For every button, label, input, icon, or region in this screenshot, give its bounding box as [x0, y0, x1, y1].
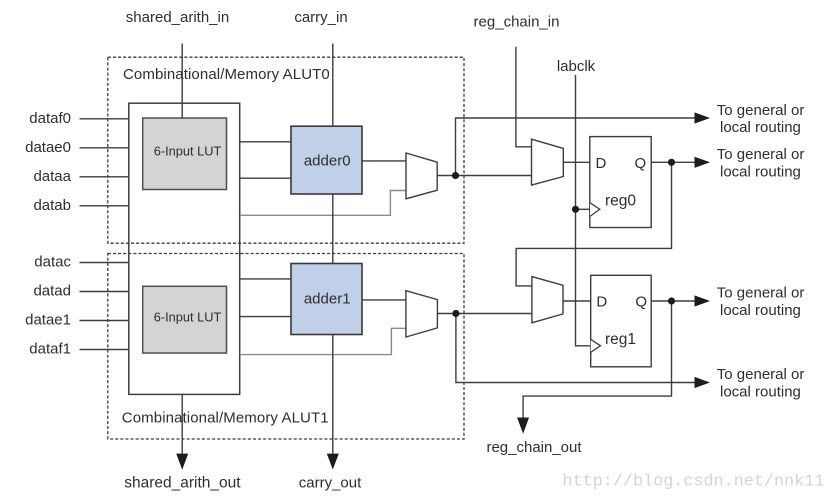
svg-text:6-Input LUT: 6-Input LUT	[154, 144, 222, 159]
svg-text:datab: datab	[33, 197, 71, 214]
svg-text:To general or: To general or	[717, 285, 805, 302]
svg-text:To general or: To general or	[717, 366, 805, 383]
svg-text:dataf0: dataf0	[29, 110, 71, 127]
svg-text:labclk: labclk	[557, 58, 596, 75]
svg-text:To general or: To general or	[717, 146, 805, 163]
svg-text:Combinational/Memory ALUT0: Combinational/Memory ALUT0	[123, 66, 330, 83]
svg-text:adder1: adder1	[304, 291, 351, 308]
svg-text:dataf1: dataf1	[29, 341, 71, 358]
svg-text:D: D	[596, 155, 607, 172]
svg-text:reg_chain_out: reg_chain_out	[486, 439, 582, 456]
svg-text:datae1: datae1	[25, 312, 71, 329]
svg-text:datae0: datae0	[25, 139, 71, 156]
svg-text:carry_in: carry_in	[294, 9, 347, 26]
svg-text:Q: Q	[635, 155, 647, 172]
svg-text:reg1: reg1	[605, 331, 636, 348]
svg-text:dataa: dataa	[33, 168, 71, 185]
svg-text:reg0: reg0	[605, 193, 636, 210]
svg-text:local routing: local routing	[720, 119, 801, 136]
svg-text:datad: datad	[33, 283, 71, 300]
svg-text:6-Input LUT: 6-Input LUT	[154, 309, 222, 324]
svg-text:local routing: local routing	[720, 163, 801, 180]
svg-text:reg_chain_in: reg_chain_in	[474, 14, 560, 31]
svg-text:shared_arith_in: shared_arith_in	[126, 9, 229, 26]
svg-text:D: D	[596, 294, 607, 311]
svg-text:local routing: local routing	[720, 302, 801, 319]
svg-text:shared_arith_out: shared_arith_out	[124, 475, 241, 492]
svg-text:To general or: To general or	[717, 102, 805, 119]
svg-text:local routing: local routing	[720, 384, 801, 401]
svg-text:adder0: adder0	[304, 153, 351, 170]
svg-text:datac: datac	[34, 254, 71, 271]
svg-text:http://blog.csdn.net/nnk11: http://blog.csdn.net/nnk11	[563, 473, 825, 492]
svg-text:carry_out: carry_out	[299, 475, 362, 492]
svg-text:Combinational/Memory ALUT1: Combinational/Memory ALUT1	[122, 410, 329, 427]
svg-text:Q: Q	[635, 294, 647, 311]
